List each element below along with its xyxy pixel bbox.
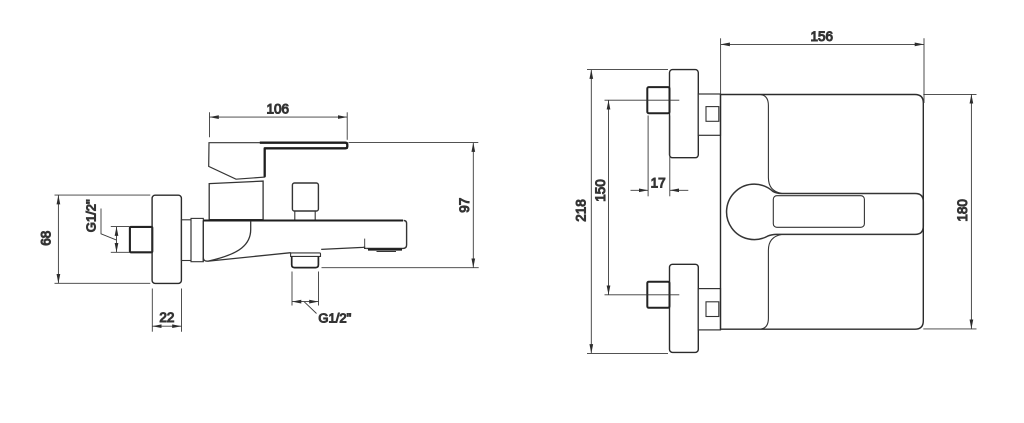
svg-text:106: 106 <box>267 102 290 117</box>
svg-text:68: 68 <box>39 231 54 246</box>
dimension G1/2 side (left) <box>101 209 129 253</box>
spout underside right slope <box>321 247 366 249</box>
dimension G1/2 bottom <box>292 272 319 314</box>
bottom pipe inner square <box>706 302 719 317</box>
diverter knob (side) <box>292 183 318 211</box>
valve housing under handle <box>209 181 263 220</box>
svg-text:G1/2": G1/2" <box>83 199 98 232</box>
dimension 68 <box>55 195 151 283</box>
top escutcheon (front) <box>670 70 699 158</box>
top nut G1/2 (front) <box>647 87 669 113</box>
dimension 180 <box>923 94 976 329</box>
inner curve of body <box>208 221 251 261</box>
handle inner recess <box>773 196 864 228</box>
spout body left edge <box>202 221 204 262</box>
aerator thick line <box>368 248 402 250</box>
shower port flange <box>291 253 321 257</box>
dimension 150 <box>608 100 610 295</box>
body face edge bottom <box>761 235 782 330</box>
svg-text:218: 218 <box>573 199 588 222</box>
dimension 97 <box>322 143 479 268</box>
top pipe <box>698 94 720 135</box>
main body outline <box>721 95 924 330</box>
svg-text:180: 180 <box>955 199 970 222</box>
bottom nut G1/2 (front) <box>647 282 669 308</box>
handle front: circle + bar <box>727 184 924 239</box>
top nut centerline <box>605 99 680 101</box>
dimension 218 <box>587 70 668 354</box>
dimension 156 <box>721 38 924 103</box>
svg-text:97: 97 <box>457 198 472 213</box>
handle lever blade (thick) <box>260 143 348 177</box>
neck collar <box>191 218 203 261</box>
dimension 17 <box>631 116 689 197</box>
spout body top edge (thick) <box>203 220 403 222</box>
dimension 22 <box>152 289 181 332</box>
svg-text:150: 150 <box>593 179 608 202</box>
bottom escutcheon (front) <box>670 264 699 352</box>
bottom nut centerline <box>605 294 680 296</box>
shower port cylinder <box>292 256 319 267</box>
neck tube <box>181 220 191 261</box>
diverter knob stem <box>295 211 315 220</box>
svg-text:G1/2": G1/2" <box>318 310 351 325</box>
spout seam line <box>364 239 366 248</box>
dimension 106 <box>210 112 348 140</box>
wall escutcheon (side) <box>152 195 181 283</box>
top pipe inner square <box>706 107 719 122</box>
aerator thin line <box>377 251 397 253</box>
bottom pipe <box>698 289 720 330</box>
svg-text:156: 156 <box>811 29 834 44</box>
svg-text:22: 22 <box>159 310 174 325</box>
svg-text:17: 17 <box>651 175 666 190</box>
wall nut G1/2 connector (side) <box>130 227 152 252</box>
body face edge top <box>761 95 782 194</box>
spout tip right end <box>366 221 406 249</box>
handle body wedge (side) <box>209 143 348 180</box>
spout underside left slope <box>203 253 290 261</box>
